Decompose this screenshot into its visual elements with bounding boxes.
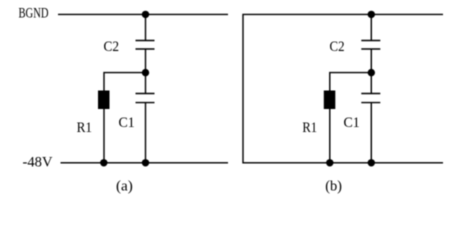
svg-text:C1: C1 xyxy=(344,115,360,131)
svg-text:R1: R1 xyxy=(77,120,92,136)
svg-text:(b): (b) xyxy=(325,179,342,195)
svg-text:C1: C1 xyxy=(119,115,135,131)
svg-text:C2: C2 xyxy=(104,39,120,55)
svg-text:R1: R1 xyxy=(302,120,317,136)
svg-text:(a): (a) xyxy=(116,179,133,195)
svg-text:BGND: BGND xyxy=(19,6,49,22)
svg-text:C2: C2 xyxy=(330,39,345,55)
svg-text:-48V: -48V xyxy=(23,155,53,171)
